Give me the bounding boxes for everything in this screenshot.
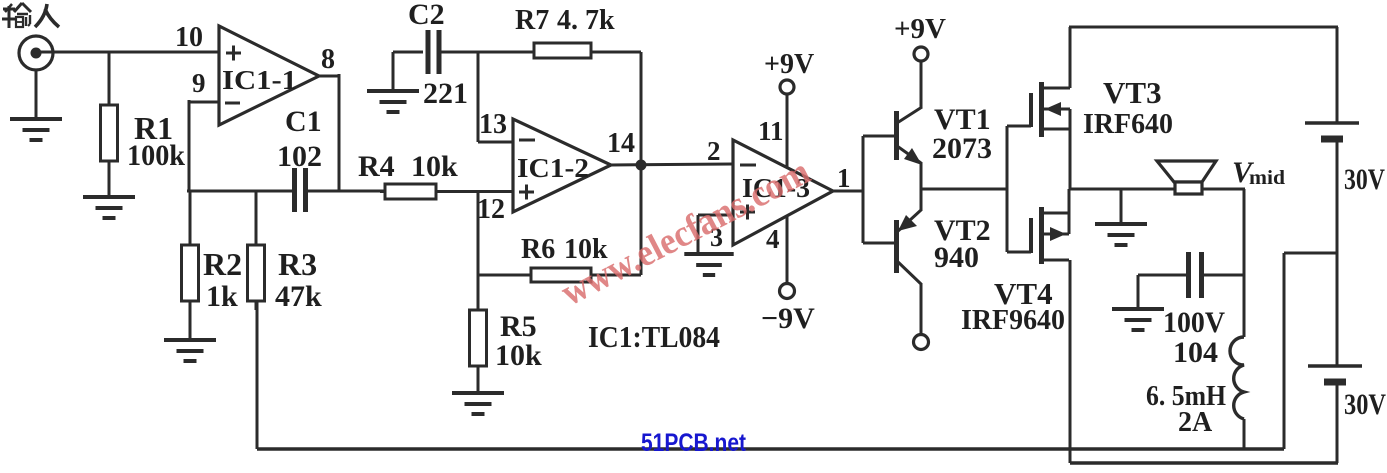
label R4 10k — [411, 150, 458, 183]
label R5 10k — [495, 339, 542, 372]
wire zobel ground — [1137, 275, 1140, 308]
transistor VT2 collector — [897, 261, 921, 335]
pin12 label — [477, 194, 505, 225]
svg-text:14: 14 — [607, 128, 635, 159]
wire battery bottom lead — [1336, 384, 1339, 463]
resistor R4 — [380, 184, 513, 199]
svg-text:12: 12 — [477, 194, 505, 225]
mosfet VT4 gate — [1007, 218, 1031, 253]
wire pin13 branch — [478, 52, 513, 142]
speaker — [1157, 161, 1216, 194]
ground R2 — [164, 340, 216, 361]
wire R7 right — [591, 51, 641, 54]
label R1 — [134, 110, 173, 146]
label C1 — [285, 105, 322, 138]
mosfet VT4 body arrow — [1044, 227, 1069, 241]
svg-text:2073: 2073 — [932, 132, 992, 165]
transistor VT1 bar — [894, 111, 899, 160]
wire bottom rail neg — [1070, 461, 1338, 464]
svg-text:1: 1 — [837, 163, 851, 193]
svg-text:51PCB.net: 51PCB.net — [641, 429, 747, 457]
svg-text:10: 10 — [175, 22, 203, 53]
svg-text:102: 102 — [277, 140, 322, 173]
wire output right — [1202, 188, 1245, 191]
label R6 10k — [564, 234, 608, 265]
label 102 — [277, 140, 322, 173]
svg-text:VT3: VT3 — [1103, 75, 1162, 110]
resistor R5 — [470, 310, 487, 392]
svg-text:2A: 2A — [1178, 407, 1213, 438]
label 30V bottom — [1344, 388, 1386, 421]
svg-text:2: 2 — [707, 136, 721, 166]
node 14 dot — [636, 160, 647, 171]
ground IC1-3 pin3 — [684, 254, 733, 275]
wire VT1 base — [863, 135, 895, 138]
label R7 4.7k — [557, 5, 615, 36]
pin11 label — [758, 116, 784, 146]
label 51PCB.net — [641, 429, 747, 457]
svg-text:R7: R7 — [515, 5, 549, 36]
plus IC1-1 — [226, 46, 241, 61]
svg-text:30V: 30V — [1344, 388, 1386, 421]
resistor R7 — [534, 43, 591, 58]
label VT1 — [934, 103, 991, 136]
mosfet VT3 source — [1044, 109, 1070, 190]
svg-text:11: 11 — [758, 116, 784, 146]
svg-text:+9V: +9V — [764, 49, 814, 80]
wire IC1-2 out — [610, 164, 733, 165]
ground output — [1095, 224, 1147, 245]
wire output left — [1070, 188, 1176, 191]
svg-text:+9V: +9V — [894, 13, 946, 45]
label R3 — [278, 246, 317, 282]
label 47k — [275, 280, 322, 313]
mosfet VT4 channel — [1039, 207, 1044, 264]
minus IC1-3 — [740, 164, 756, 167]
pin1 label — [837, 163, 851, 193]
wire base bus — [862, 136, 865, 243]
minus IC1-2 — [519, 139, 535, 142]
label IC1-3 — [742, 173, 810, 203]
wire gate bus — [1006, 126, 1009, 252]
wire connector down — [35, 70, 38, 118]
label +9V IC1 — [764, 49, 814, 80]
label 221 — [423, 77, 468, 110]
wire VT2 base — [863, 242, 895, 245]
svg-text:4. 7k: 4. 7k — [557, 5, 615, 36]
label R7 — [515, 5, 549, 36]
plus IC1-2 — [519, 185, 534, 200]
svg-text:−9V: −9V — [761, 302, 815, 335]
label 2073 — [932, 132, 992, 165]
svg-text:8: 8 — [321, 44, 335, 75]
terminal -9V IC1 — [780, 284, 795, 299]
terminal +9V VT1 — [914, 47, 928, 61]
terminal -9V VT2 — [914, 335, 929, 350]
ground R5 — [452, 393, 504, 414]
mosfet VT3 gate — [1007, 93, 1031, 127]
wire pin9 — [189, 100, 219, 192]
transistor VT2 bar — [894, 220, 899, 273]
svg-text:940: 940 — [934, 241, 979, 274]
resistor R2 — [182, 191, 199, 339]
minus IC1-1 — [225, 102, 240, 105]
mosfet VT4 source — [1044, 259, 1069, 262]
op-amp IC1-2 — [513, 119, 611, 212]
wire VT2 emitter up — [920, 188, 923, 211]
wire node14 vertical — [640, 52, 643, 275]
mosfet VT3 drain — [1044, 27, 1070, 88]
svg-text:IC1:TL084: IC1:TL084 — [588, 319, 720, 354]
transistor VT2 emitter — [897, 210, 921, 232]
pin10 label — [175, 22, 203, 53]
svg-text:10k: 10k — [411, 150, 458, 183]
plus IC1-3 — [740, 205, 755, 220]
svg-text:47k: 47k — [275, 280, 322, 313]
wire C2 left — [393, 52, 423, 90]
wire VT4 source down — [1069, 260, 1072, 463]
capacitor zobel — [1138, 252, 1244, 298]
op-amp IC1-1 — [219, 26, 319, 125]
svg-text:10k: 10k — [495, 339, 542, 372]
label R5 — [500, 310, 537, 343]
wire mid tap — [1284, 253, 1337, 449]
svg-text:mid: mid — [1249, 167, 1285, 189]
svg-text:IC1-2: IC1-2 — [517, 153, 589, 183]
wire battery top lead — [1336, 27, 1339, 122]
ground zobel — [1112, 309, 1164, 330]
ground C2 — [367, 91, 419, 112]
svg-text:R2: R2 — [203, 246, 242, 282]
ground R1 — [83, 197, 135, 218]
svg-text:C2: C2 — [408, 0, 445, 31]
mosfet VT3 channel — [1039, 82, 1044, 137]
mosfet VT4 drain — [1044, 189, 1069, 234]
svg-text:R6: R6 — [521, 234, 555, 265]
inductor 6.5mH — [1230, 337, 1244, 449]
ground input — [10, 119, 62, 140]
label Vmid — [1232, 156, 1285, 189]
label 30V top — [1344, 163, 1385, 196]
pin14 label — [607, 128, 635, 159]
svg-text:100k: 100k — [127, 139, 185, 172]
label R2 — [203, 246, 242, 282]
transistor VT1 collector — [897, 61, 922, 123]
label R4 — [358, 150, 395, 183]
pin13 label — [479, 109, 507, 140]
wire pin11 — [786, 94, 789, 168]
label 940 — [934, 241, 979, 274]
wire top rail — [1069, 26, 1338, 29]
battery B2 30V — [1308, 366, 1362, 382]
svg-text:R3: R3 — [278, 246, 317, 282]
label VT4 — [994, 276, 1053, 311]
label IRF640 — [1083, 108, 1173, 140]
wire drive — [921, 188, 1007, 191]
svg-text:IRF9640: IRF9640 — [961, 304, 1065, 336]
mosfet VT3 body arrow — [1044, 102, 1070, 116]
watermark elecfans — [554, 150, 816, 314]
feedback rail left — [187, 190, 294, 193]
svg-text:100V: 100V — [1163, 306, 1225, 339]
input connector J1 — [19, 36, 53, 70]
wire pin4 — [786, 216, 789, 283]
wire Vmid down — [1243, 189, 1246, 337]
wire C1 to R4 — [305, 190, 385, 193]
label VT3 — [1103, 75, 1162, 110]
svg-text:R4: R4 — [358, 150, 395, 183]
label 2A — [1178, 407, 1213, 438]
label +9V VT1 — [894, 13, 946, 45]
label VT2 — [934, 214, 991, 247]
wire R1 tap — [108, 52, 111, 105]
label IC1-2 — [517, 153, 589, 183]
svg-text:IC1-1: IC1-1 — [222, 65, 297, 95]
label C2 — [408, 0, 445, 31]
wire between batteries — [1336, 142, 1339, 365]
label IC1:TL084 — [588, 319, 720, 354]
svg-text:104: 104 — [1173, 336, 1218, 369]
battery B1 30V — [1305, 123, 1359, 139]
wire pin3 stub — [698, 215, 733, 253]
wire C2 to R7 — [439, 51, 534, 54]
op-amp IC1-3 — [733, 140, 833, 245]
svg-text:4: 4 — [766, 224, 780, 254]
label R6 — [521, 234, 555, 265]
input label 输入 — [2, 3, 59, 28]
label 100k — [127, 139, 185, 172]
label 100V — [1163, 306, 1225, 339]
svg-text:1k: 1k — [206, 280, 238, 313]
terminal +9V IC1 — [780, 80, 794, 94]
pin4 label — [766, 224, 780, 254]
pin9 label — [192, 68, 206, 98]
label -9V IC1 — [761, 302, 815, 335]
label IC1-1 — [222, 65, 297, 95]
wire pin8 down — [318, 74, 339, 191]
label 104 — [1173, 336, 1218, 369]
pin3 label — [710, 223, 723, 252]
transistor VT1 emitter — [897, 146, 922, 165]
label 1k — [206, 280, 238, 313]
resistor R3 — [248, 191, 265, 310]
resistor R6 — [478, 268, 641, 282]
wire VT1 emitter down — [920, 162, 923, 190]
svg-text:IRF640: IRF640 — [1083, 108, 1173, 140]
wire input to IC1-1 pin10 — [41, 51, 219, 54]
wire IC1-3 out — [832, 190, 863, 193]
label 6.5mH — [1146, 381, 1226, 412]
svg-text:13: 13 — [479, 109, 507, 140]
wire speaker ground stub — [1120, 189, 1123, 223]
pin8 label — [321, 44, 335, 75]
pin2 label — [707, 136, 721, 166]
label IRF9640 — [961, 304, 1065, 336]
capacitor C1 — [295, 168, 306, 212]
wire bottom rail mid — [257, 447, 1284, 450]
capacitor C2 — [428, 30, 439, 74]
svg-text:221: 221 — [423, 77, 468, 110]
svg-text:30V: 30V — [1344, 163, 1385, 196]
resistor R1 — [101, 105, 118, 196]
wire R3 down — [256, 301, 259, 449]
svg-text:C1: C1 — [285, 105, 322, 138]
svg-text:9: 9 — [192, 68, 206, 98]
wire R4 junction down — [477, 192, 480, 310]
